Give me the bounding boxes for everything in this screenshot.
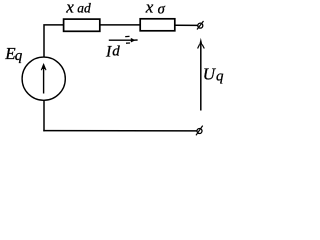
source E_q internal arrow bbox=[41, 63, 46, 94]
svg-text:q: q bbox=[216, 68, 224, 84]
terminal (top) slash bbox=[197, 21, 204, 30]
wire: source bottom vertical bbox=[43, 100, 45, 131]
svg-text:I: I bbox=[105, 44, 112, 61]
svg-text:U: U bbox=[203, 65, 217, 84]
U_q voltage arrow bbox=[198, 38, 205, 111]
I_d current arrow bbox=[109, 36, 138, 43]
terminal (bottom) circle bbox=[197, 129, 202, 134]
terminal (bottom) slash bbox=[196, 126, 203, 136]
svg-text:d: d bbox=[112, 44, 120, 60]
resistor x_ad body bbox=[64, 19, 100, 31]
wire: bottom horizontal to bottom terminal bbox=[43, 130, 197, 132]
resistor x_sigma body bbox=[140, 19, 175, 31]
wire: resistor x_sigma to top terminal bbox=[176, 24, 198, 26]
wire: top-left vertical + horizontal to resistor x_ad bbox=[44, 25, 64, 58]
source E_q circle bbox=[22, 57, 65, 100]
wire: between resistors bbox=[100, 24, 140, 26]
svg-text:σ: σ bbox=[158, 2, 166, 18]
svg-text:x: x bbox=[145, 0, 154, 17]
svg-text:q: q bbox=[15, 48, 23, 64]
svg-text:x: x bbox=[65, 0, 74, 17]
terminal (top) circle bbox=[198, 23, 203, 28]
svg-text:ad: ad bbox=[77, 0, 91, 15]
